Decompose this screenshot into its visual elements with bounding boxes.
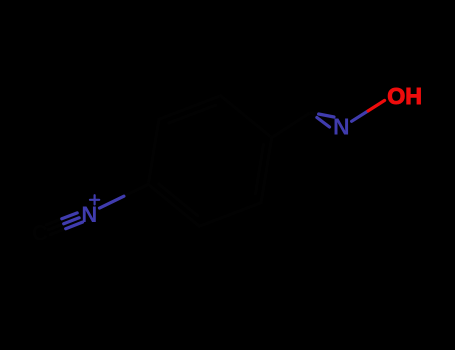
benzene ring edge V5-A (bottom left) (148, 184, 199, 226)
C=N oxime double bond lower line nitrogen half (317, 118, 330, 128)
benzene ring inner double bond of V5-A (159, 184, 198, 216)
benzene ring edge A-V4 (left) (148, 119, 159, 184)
isocyanide triple bond upper line nitrogen half (62, 213, 77, 219)
benzene ring inner double bond of V4-V2 (169, 105, 216, 123)
benzene ring edge V1-V5 (bottom right) (199, 203, 261, 227)
isocyanide triple bond lower line nitrogen half (66, 222, 83, 229)
C=N oxime double bond upper line carbon half (311, 113, 320, 115)
isocyanide triple bond upper line carbon half (47, 219, 62, 225)
benzene ring inner double bond of D-V1 (256, 144, 264, 194)
bond ring D to CH apex (carbon, dark) (272, 112, 311, 137)
benzene ring edge V4-V2 (top) (159, 96, 221, 120)
svg-text:N: N (81, 202, 97, 227)
N-O bond oxygen half (red) (368, 100, 385, 111)
plus charge on N (90, 195, 99, 204)
svg-text:C: C (32, 221, 48, 246)
C=N oxime double bond upper line nitrogen half (319, 114, 334, 117)
isocyanide triple bond center line carbon half (48, 224, 63, 230)
svg-text:N: N (333, 114, 350, 140)
C=N oxime double bond lower line carbon half (311, 113, 318, 119)
N-O bond nitrogen half (blue) (352, 111, 369, 121)
benzene ring edge V2-D (top right) (221, 96, 272, 138)
svg-text:OH: OH (387, 83, 422, 109)
bond ring A to isocyanide N+ (nitrogen half, blue) (100, 196, 124, 208)
isocyanide triple bond lower line carbon half (50, 229, 65, 235)
bond ring A to isocyanide N+ (carbon half, dark) (124, 184, 148, 196)
isocyanide triple bond center line nitrogen half (64, 218, 79, 224)
benzene ring edge D-V1 (right) (261, 138, 272, 203)
